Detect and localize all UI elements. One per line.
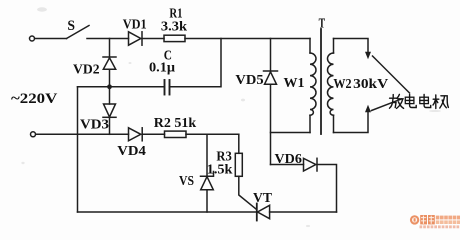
wire xyxy=(142,38,164,40)
transformer secondary winding W2 xyxy=(328,39,334,133)
label 放电电极 (discharge electrodes) xyxy=(390,94,449,108)
terminal (neutral) xyxy=(31,132,36,137)
svg-text:VD4: VD4 xyxy=(117,144,146,159)
svg-text:3.3k: 3.3k xyxy=(161,19,187,34)
transformer core T xyxy=(320,29,322,134)
wire xyxy=(110,86,165,88)
svg-text:VD6: VD6 xyxy=(275,152,302,167)
capacitor C xyxy=(165,80,170,95)
svg-text:VT: VT xyxy=(253,191,273,206)
svg-text:VS: VS xyxy=(179,174,194,189)
svg-text:30kV: 30kV xyxy=(353,77,388,92)
wire (W1 bottom) xyxy=(271,132,311,134)
char dian 1 xyxy=(405,94,416,107)
transformer primary winding W1 xyxy=(310,39,316,133)
resistor R2 xyxy=(165,131,187,137)
wire (bottom rail left) xyxy=(78,211,257,213)
char ji xyxy=(433,95,448,109)
wire xyxy=(78,86,110,88)
wire (W2 top lead) xyxy=(334,39,369,53)
wire xyxy=(35,38,67,40)
diode VD2 xyxy=(103,57,116,69)
diode VD1 xyxy=(129,32,143,45)
wire xyxy=(109,70,111,105)
svg-text:VD1: VD1 xyxy=(123,18,147,33)
resistor R3 xyxy=(235,153,242,176)
wire (W2 bottom lead) xyxy=(334,112,369,133)
wire xyxy=(109,117,111,134)
svg-text:S: S xyxy=(67,18,75,34)
leader line to bottom electrode xyxy=(372,99,402,111)
char fang xyxy=(390,94,404,108)
wire xyxy=(239,176,257,209)
wire xyxy=(77,87,79,212)
wire xyxy=(238,134,240,153)
wire xyxy=(206,190,208,212)
watermark logo circle xyxy=(410,215,419,224)
switch S xyxy=(67,26,90,39)
diode VD6 xyxy=(304,158,318,171)
wire xyxy=(36,133,129,135)
wire xyxy=(170,39,222,87)
wire xyxy=(271,164,304,166)
wire xyxy=(142,133,164,135)
wire xyxy=(185,38,310,40)
wire xyxy=(206,134,208,176)
svg-text:T: T xyxy=(319,16,326,31)
wire xyxy=(87,38,129,40)
svg-text:R2 51k: R2 51k xyxy=(154,116,197,131)
svg-text:VD2: VD2 xyxy=(73,62,100,77)
svg-text:W1: W1 xyxy=(284,76,305,91)
watermark text jieku xyxy=(420,215,435,224)
wire xyxy=(270,84,272,164)
terminal (live) xyxy=(30,36,35,41)
diode VD3 xyxy=(103,104,116,117)
resistor R1 xyxy=(164,35,185,41)
svg-text:1.5k: 1.5k xyxy=(207,163,233,178)
wire (bottom rail right) xyxy=(270,211,337,213)
diode VD4 xyxy=(129,128,143,141)
svg-text:W2: W2 xyxy=(333,77,351,92)
discharge electrode top arrow xyxy=(365,52,371,59)
watermark small text xyxy=(436,216,460,224)
watermark tiny bottom row xyxy=(420,225,460,228)
wire xyxy=(317,165,337,213)
wire xyxy=(186,133,239,135)
thyristor VT xyxy=(257,204,270,221)
svg-text:VD5: VD5 xyxy=(235,73,263,88)
wire xyxy=(270,39,272,72)
diode VD5 xyxy=(264,71,278,84)
wire xyxy=(109,39,111,58)
discharge electrode bottom arrow xyxy=(365,105,371,112)
leader line to top electrode xyxy=(373,56,410,93)
svg-text:VD3: VD3 xyxy=(80,118,109,133)
svg-text:0.1μ: 0.1μ xyxy=(149,61,175,76)
zener diode VS xyxy=(201,172,214,190)
char dian 2 xyxy=(420,94,431,107)
svg-text:~220V: ~220V xyxy=(11,91,57,107)
junction node A xyxy=(107,84,112,89)
